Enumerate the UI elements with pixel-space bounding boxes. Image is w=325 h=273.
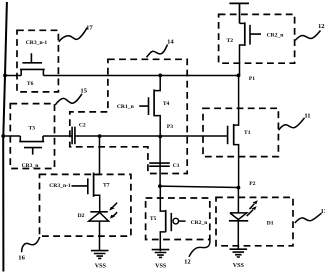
transistor T4 source — [154, 116, 160, 137]
svg-text:12: 12 — [318, 23, 325, 30]
transistor T7 source — [94, 195, 100, 211]
node T4 drain row1 — [158, 74, 162, 78]
wire row2 C2 to T1 gate — [76, 135, 228, 137]
transistor T4 channel — [153, 89, 155, 116]
enclosure box 11 — [203, 108, 278, 156]
transistor T3 gate — [24, 148, 42, 155]
ground below T5 — [152, 250, 170, 258]
transistor T7 gate — [72, 178, 88, 194]
enclosure box 12 top — [219, 14, 295, 63]
svg-text:T4: T4 — [163, 101, 170, 107]
transistor T4 gate — [139, 97, 148, 115]
node C1 branch — [158, 135, 162, 139]
svg-text:17: 17 — [86, 24, 93, 31]
enclosure box 17 — [17, 30, 58, 92]
transistor T5 drain — [160, 187, 165, 211]
svg-text:CR3_n-1: CR3_n-1 — [49, 183, 71, 189]
led D1 arrow 1 — [247, 210, 253, 216]
transistor T5 channel — [165, 210, 167, 232]
transistor T2 gate — [250, 25, 261, 45]
enclosure box 15 — [10, 104, 54, 169]
leader squiggle 12 top — [295, 31, 320, 41]
photodiode D2 — [90, 211, 108, 213]
wire D1 to ground — [237, 221, 239, 249]
enclosure box 12 bottom — [146, 198, 210, 240]
svg-text:13: 13 — [321, 208, 325, 215]
transistor T4 drain — [154, 75, 160, 90]
wire T4 source to P2 through C1 — [159, 136, 161, 186]
transistor T3 channel — [19, 136, 44, 142]
leader squiggle 16 — [22, 237, 40, 252]
svg-text:12: 12 — [184, 258, 191, 265]
node left row2 — [1, 134, 5, 138]
leader squiggle 11 — [279, 118, 305, 130]
svg-text:T2: T2 — [227, 38, 234, 44]
wire left vertical bus — [3, 2, 7, 272]
svg-text:CR1_n: CR1_n — [117, 104, 135, 110]
svg-text:D2: D2 — [78, 213, 85, 219]
capacitor C2 — [72, 127, 75, 145]
capacitor C1 — [149, 163, 170, 166]
transistor T2 drain — [240, 22, 245, 24]
photodiode D2 arrow 2 — [112, 212, 117, 217]
wire row1 horizontal left segment — [5, 75, 21, 77]
svg-text:14: 14 — [167, 39, 174, 46]
transistor T1 channel — [233, 124, 235, 145]
transistor T5 source — [160, 232, 165, 251]
svg-text:VSS: VSS — [155, 264, 167, 270]
node P2 left — [158, 184, 162, 188]
leader squiggle 13 — [295, 213, 322, 223]
node T7 branch — [98, 134, 102, 138]
enclosure box 14 — [70, 59, 187, 173]
photodiode D2 arrow 1 — [112, 203, 118, 209]
leader squiggle 14 — [147, 45, 168, 58]
ground below D2 — [91, 251, 109, 259]
transistor T1 drain — [234, 75, 239, 125]
transistor T5 gate with bubble — [170, 213, 172, 231]
enclosure box 13 — [216, 197, 293, 245]
svg-text:T1: T1 — [244, 130, 251, 136]
svg-text:VSS: VSS — [233, 263, 245, 269]
svg-text:P2: P2 — [249, 181, 255, 187]
leader squiggle 17 — [59, 28, 87, 42]
svg-text:16: 16 — [18, 254, 25, 261]
wire D2 to ground — [99, 221, 101, 250]
node P2 right — [237, 186, 241, 190]
svg-text:D1: D1 — [267, 220, 274, 226]
ground below D1 — [230, 249, 248, 257]
transistor T2 source — [240, 45, 245, 75]
transistor T7 drain — [94, 136, 100, 174]
led D1 — [230, 213, 247, 220]
wire row2 left segment — [3, 135, 20, 137]
svg-text:11: 11 — [304, 112, 310, 119]
node left row1 — [3, 74, 7, 78]
svg-text:CR3_n-1: CR3_n-1 — [26, 40, 48, 46]
svg-text:VSS: VSS — [95, 263, 107, 269]
transistor T2 channel — [244, 22, 246, 46]
svg-text:C1: C1 — [173, 163, 180, 169]
transistor T7 channel — [93, 173, 95, 197]
transistor T6 channel — [20, 69, 45, 75]
wire P2 horizontal — [160, 186, 239, 187]
svg-text:P3: P3 — [167, 124, 173, 130]
enclosure box 16 — [40, 174, 131, 236]
svg-text:T6: T6 — [27, 81, 34, 87]
svg-text:T5: T5 — [150, 216, 157, 222]
svg-text:P1: P1 — [249, 76, 255, 82]
svg-text:T3: T3 — [29, 126, 36, 132]
wire row1 horizontal main segment — [43, 75, 238, 77]
svg-text:CR2_n: CR2_n — [267, 33, 285, 39]
transistor T6 gate — [22, 53, 42, 63]
led D1 arrow 2 — [250, 204, 255, 209]
wire row2 T3 to C2 — [43, 135, 72, 137]
node P1 — [237, 74, 241, 78]
svg-text:15: 15 — [80, 88, 87, 95]
power rail top — [229, 3, 249, 23]
svg-text:C2: C2 — [79, 123, 86, 129]
svg-text:CR3_n: CR3_n — [22, 163, 40, 169]
svg-text:CR2_n: CR2_n — [191, 220, 209, 226]
transistor T1 gate — [227, 126, 229, 145]
wire P2 to D1 — [237, 188, 239, 213]
leader squiggle 12 bottom — [189, 240, 210, 257]
transistor T1 source — [234, 145, 239, 188]
leader squiggle 15 — [55, 94, 82, 105]
svg-text:T7: T7 — [103, 182, 110, 188]
